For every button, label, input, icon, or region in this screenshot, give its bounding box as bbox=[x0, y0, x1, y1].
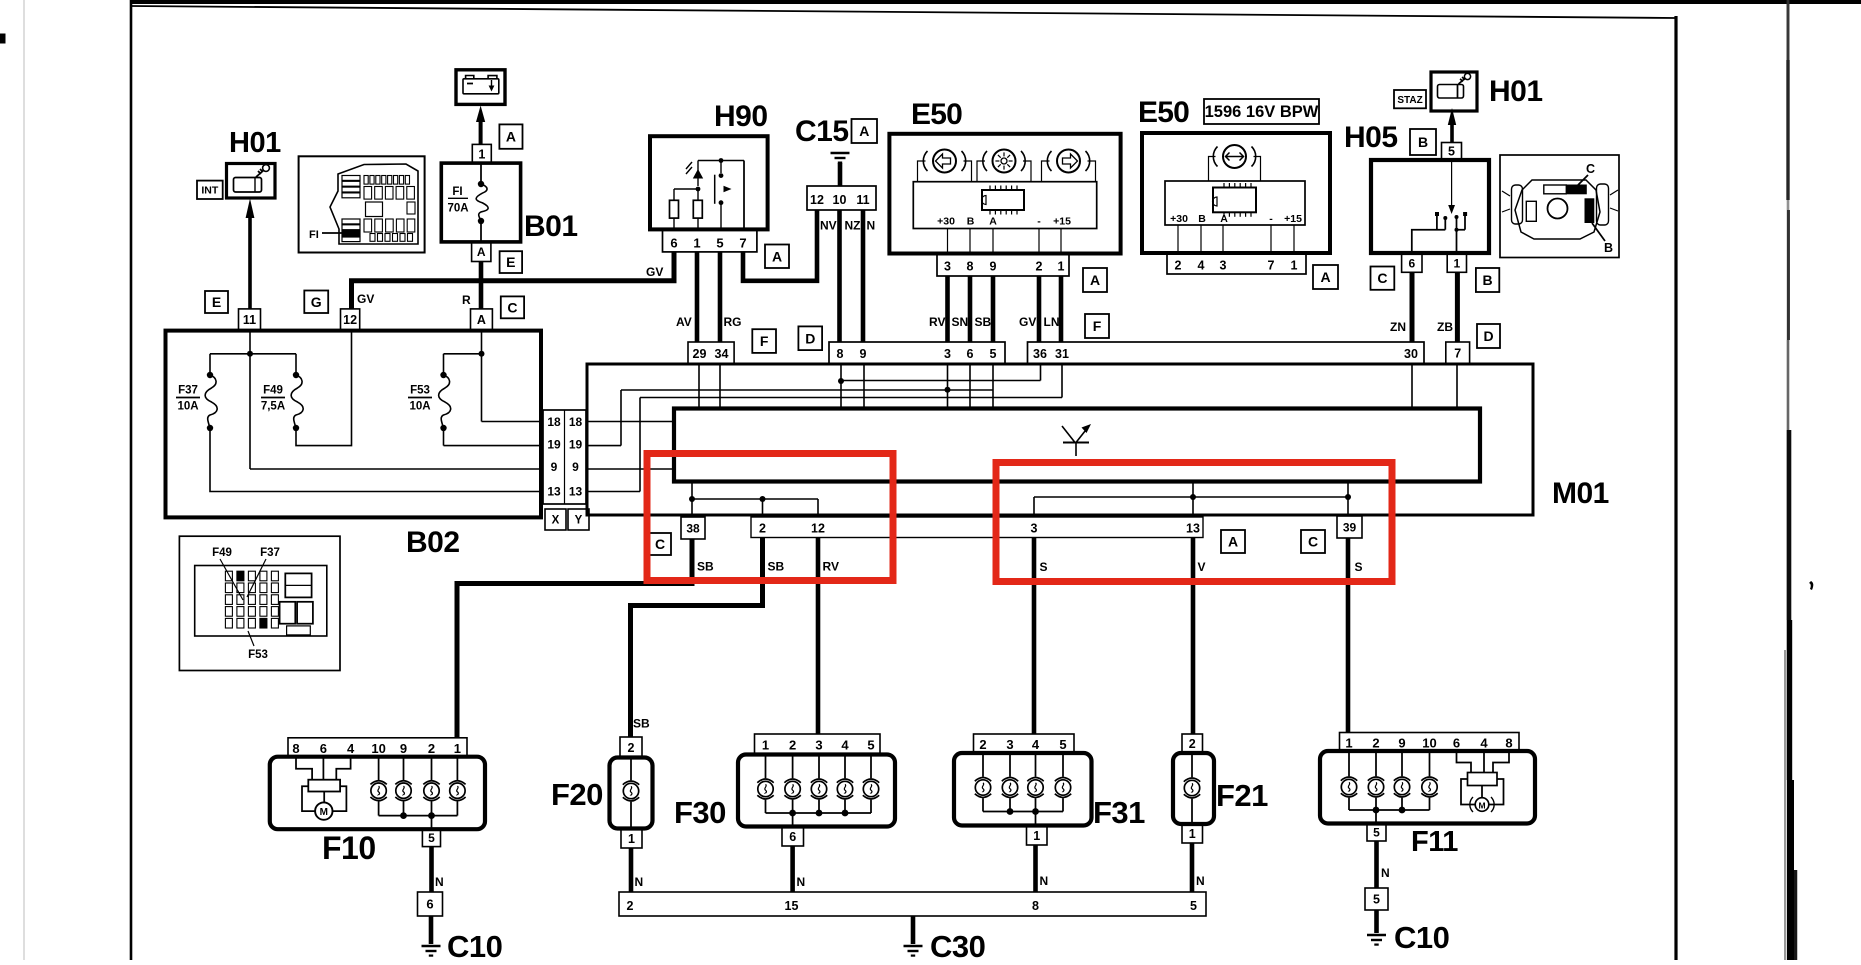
svg-text:LN: LN bbox=[1044, 315, 1060, 329]
svg-text:-: - bbox=[1037, 216, 1041, 228]
svg-text:F49: F49 bbox=[212, 547, 232, 559]
svg-text:3: 3 bbox=[1031, 522, 1038, 536]
svg-text:N: N bbox=[1381, 866, 1390, 880]
svg-text:A: A bbox=[1090, 272, 1100, 288]
svg-text:3: 3 bbox=[944, 260, 951, 274]
svg-text:38: 38 bbox=[686, 521, 700, 535]
svg-text:2: 2 bbox=[1372, 735, 1379, 750]
svg-text:A: A bbox=[506, 129, 516, 145]
svg-text:C10: C10 bbox=[447, 929, 502, 960]
svg-text:1: 1 bbox=[1033, 829, 1040, 843]
svg-text:6: 6 bbox=[320, 741, 327, 756]
svg-text:B: B bbox=[1483, 272, 1493, 288]
svg-text:5: 5 bbox=[990, 347, 997, 361]
svg-text:2: 2 bbox=[759, 522, 766, 536]
svg-text:C: C bbox=[507, 299, 517, 315]
svg-text:N: N bbox=[435, 875, 444, 889]
svg-text:H90: H90 bbox=[714, 100, 768, 133]
svg-text:1: 1 bbox=[628, 832, 635, 846]
svg-text:E50: E50 bbox=[911, 98, 962, 131]
svg-text:6: 6 bbox=[670, 236, 677, 251]
svg-text:N: N bbox=[1040, 874, 1049, 888]
svg-text:8: 8 bbox=[292, 741, 299, 756]
svg-text:9: 9 bbox=[400, 741, 407, 756]
svg-text:E: E bbox=[212, 294, 221, 310]
svg-text:9: 9 bbox=[1398, 735, 1405, 750]
svg-text:RV: RV bbox=[823, 560, 839, 574]
svg-text:+15: +15 bbox=[1284, 213, 1302, 225]
svg-text:5: 5 bbox=[1059, 737, 1066, 752]
svg-text:3: 3 bbox=[944, 347, 951, 361]
svg-text:C: C bbox=[655, 536, 665, 552]
svg-text:A: A bbox=[477, 313, 486, 327]
svg-text:AV: AV bbox=[676, 315, 692, 329]
svg-text:M: M bbox=[1478, 800, 1485, 810]
svg-text:1: 1 bbox=[1291, 259, 1298, 273]
svg-text:5: 5 bbox=[716, 236, 723, 251]
svg-text:9: 9 bbox=[860, 347, 867, 361]
svg-text:7: 7 bbox=[739, 236, 746, 251]
svg-text:10A: 10A bbox=[409, 401, 430, 413]
svg-text:N: N bbox=[635, 875, 644, 889]
svg-text:1: 1 bbox=[454, 741, 461, 756]
svg-text:B01: B01 bbox=[524, 210, 578, 243]
svg-text:1596 16V BPW: 1596 16V BPW bbox=[1205, 103, 1319, 121]
svg-text:N: N bbox=[797, 875, 806, 889]
svg-text:8: 8 bbox=[967, 260, 974, 274]
svg-text:C: C bbox=[1308, 534, 1318, 550]
svg-text:19: 19 bbox=[547, 438, 561, 452]
svg-text:5: 5 bbox=[1373, 893, 1380, 907]
svg-text:8: 8 bbox=[1032, 899, 1039, 913]
svg-text:13: 13 bbox=[569, 485, 583, 499]
svg-text:C10: C10 bbox=[1394, 920, 1449, 955]
svg-text:15: 15 bbox=[785, 899, 799, 913]
svg-text:A: A bbox=[772, 248, 782, 264]
svg-text:2: 2 bbox=[1189, 737, 1196, 751]
svg-text:4: 4 bbox=[841, 738, 849, 753]
svg-text:10: 10 bbox=[371, 741, 385, 756]
svg-text:2: 2 bbox=[428, 741, 435, 756]
svg-text:X: X bbox=[552, 515, 560, 527]
svg-text:GV: GV bbox=[1019, 315, 1036, 329]
svg-text:F30: F30 bbox=[674, 795, 726, 830]
svg-text:2: 2 bbox=[628, 741, 635, 755]
svg-text:12: 12 bbox=[811, 522, 825, 536]
svg-text:NV: NV bbox=[820, 219, 837, 233]
svg-text:V: V bbox=[1198, 560, 1206, 574]
svg-text:C: C bbox=[1586, 162, 1595, 176]
svg-text:10A: 10A bbox=[177, 401, 198, 413]
svg-text:3: 3 bbox=[815, 738, 822, 753]
svg-text:2: 2 bbox=[1175, 259, 1182, 273]
svg-text:H05: H05 bbox=[1344, 121, 1398, 154]
svg-text:RV: RV bbox=[929, 315, 945, 329]
svg-text:6: 6 bbox=[789, 830, 796, 844]
svg-text:6: 6 bbox=[1453, 735, 1460, 750]
svg-text:2: 2 bbox=[979, 737, 986, 752]
svg-text:B: B bbox=[1198, 213, 1206, 225]
svg-text:1: 1 bbox=[1345, 735, 1352, 750]
svg-text:13: 13 bbox=[1186, 522, 1200, 536]
svg-text:6: 6 bbox=[967, 347, 974, 361]
svg-text:9: 9 bbox=[990, 260, 997, 274]
svg-text:INT: INT bbox=[201, 185, 219, 197]
svg-text:F37: F37 bbox=[178, 385, 198, 397]
svg-text:N: N bbox=[1196, 874, 1205, 888]
svg-text:7: 7 bbox=[1454, 346, 1461, 360]
svg-text:2: 2 bbox=[1036, 260, 1043, 274]
svg-text:+30: +30 bbox=[1170, 213, 1188, 225]
svg-text:F53: F53 bbox=[410, 385, 430, 397]
svg-text:H01: H01 bbox=[1489, 75, 1543, 108]
svg-text:RG: RG bbox=[724, 315, 742, 329]
svg-text:1: 1 bbox=[1454, 256, 1461, 270]
svg-text:70A: 70A bbox=[447, 203, 468, 215]
svg-text:SN: SN bbox=[952, 315, 969, 329]
svg-text:F21: F21 bbox=[1216, 778, 1268, 813]
svg-text:8: 8 bbox=[837, 347, 844, 361]
svg-text:F10: F10 bbox=[322, 830, 376, 866]
svg-text:29: 29 bbox=[693, 347, 707, 361]
svg-text:B: B bbox=[1418, 134, 1428, 150]
svg-text:B: B bbox=[1604, 241, 1613, 255]
svg-text:R: R bbox=[462, 293, 471, 307]
svg-text:4: 4 bbox=[1198, 259, 1205, 273]
svg-text:FI: FI bbox=[452, 186, 462, 198]
svg-text:NZ: NZ bbox=[845, 219, 861, 233]
svg-text:1: 1 bbox=[1058, 260, 1065, 274]
svg-text:7: 7 bbox=[1268, 259, 1275, 273]
svg-text:A: A bbox=[859, 123, 869, 139]
svg-text:7,5A: 7,5A bbox=[261, 401, 285, 413]
svg-text:12: 12 bbox=[343, 313, 357, 327]
svg-text:N: N bbox=[867, 219, 876, 233]
svg-text:5: 5 bbox=[867, 738, 874, 753]
svg-text:1: 1 bbox=[693, 236, 700, 251]
svg-text:STAZ: STAZ bbox=[1397, 95, 1422, 106]
svg-text:C15: C15 bbox=[795, 115, 849, 148]
svg-text:8: 8 bbox=[1505, 735, 1512, 750]
svg-text:39: 39 bbox=[1343, 520, 1357, 534]
svg-text:3: 3 bbox=[1006, 737, 1013, 752]
svg-text:4: 4 bbox=[1480, 735, 1488, 750]
svg-text:B: B bbox=[967, 216, 975, 228]
svg-text:13: 13 bbox=[547, 485, 561, 499]
svg-text:F53: F53 bbox=[248, 649, 268, 661]
svg-text:A: A bbox=[1320, 269, 1330, 285]
svg-text:F: F bbox=[760, 333, 769, 349]
svg-text:2: 2 bbox=[789, 738, 796, 753]
svg-text:F20: F20 bbox=[551, 777, 603, 812]
svg-text:1: 1 bbox=[1189, 827, 1196, 841]
svg-text:30: 30 bbox=[1404, 347, 1418, 361]
svg-text:1: 1 bbox=[478, 147, 485, 161]
svg-text:GV: GV bbox=[357, 292, 374, 306]
svg-text:FI: FI bbox=[309, 229, 319, 241]
svg-text:3: 3 bbox=[1220, 259, 1227, 273]
svg-text:C: C bbox=[1377, 270, 1387, 286]
svg-text:A: A bbox=[1228, 534, 1238, 550]
svg-text:5: 5 bbox=[428, 831, 435, 845]
svg-text:2: 2 bbox=[627, 899, 634, 913]
svg-text:19: 19 bbox=[569, 438, 583, 452]
svg-text:5: 5 bbox=[1373, 826, 1380, 840]
svg-text:-: - bbox=[1269, 213, 1273, 225]
svg-text:Y: Y bbox=[575, 515, 583, 527]
svg-text:18: 18 bbox=[547, 415, 561, 429]
svg-text:11: 11 bbox=[856, 193, 869, 207]
svg-text:M: M bbox=[320, 807, 328, 818]
svg-text:S: S bbox=[1355, 560, 1363, 574]
svg-text:A: A bbox=[1220, 213, 1228, 225]
svg-text:+30: +30 bbox=[937, 216, 955, 228]
svg-text:H01: H01 bbox=[229, 127, 281, 159]
svg-text:5: 5 bbox=[1190, 899, 1197, 913]
svg-text:+15: +15 bbox=[1053, 216, 1071, 228]
svg-text:6: 6 bbox=[1408, 256, 1415, 270]
svg-text:ZN: ZN bbox=[1390, 320, 1406, 334]
svg-text:6: 6 bbox=[426, 897, 433, 912]
svg-text:SB: SB bbox=[768, 560, 785, 574]
svg-text:34: 34 bbox=[715, 347, 729, 361]
svg-text:F49: F49 bbox=[263, 385, 283, 397]
svg-text:E: E bbox=[506, 254, 515, 270]
svg-text:9: 9 bbox=[572, 460, 579, 474]
svg-text:F11: F11 bbox=[1411, 826, 1458, 858]
svg-text:D: D bbox=[1483, 328, 1493, 344]
svg-text:SB: SB bbox=[633, 717, 650, 731]
svg-text:10: 10 bbox=[833, 193, 847, 207]
svg-text:SB: SB bbox=[697, 560, 714, 574]
svg-text:4: 4 bbox=[347, 741, 355, 756]
svg-text:S: S bbox=[1040, 560, 1048, 574]
svg-text:E50: E50 bbox=[1138, 96, 1189, 129]
svg-text:18: 18 bbox=[569, 415, 583, 429]
svg-text:M01: M01 bbox=[1552, 477, 1609, 510]
svg-text:4: 4 bbox=[1032, 737, 1040, 752]
svg-text:G: G bbox=[311, 294, 322, 310]
svg-text:GV: GV bbox=[646, 265, 663, 279]
svg-text:10: 10 bbox=[1422, 735, 1436, 750]
svg-text:F31: F31 bbox=[1093, 795, 1145, 830]
svg-text:11: 11 bbox=[243, 313, 256, 327]
svg-text:5: 5 bbox=[1448, 144, 1455, 158]
svg-text:12: 12 bbox=[810, 193, 824, 207]
svg-text:C30: C30 bbox=[930, 929, 985, 960]
svg-text:A: A bbox=[477, 245, 486, 259]
svg-text:B02: B02 bbox=[406, 526, 460, 559]
svg-text:F: F bbox=[1093, 318, 1102, 334]
svg-text:9: 9 bbox=[551, 460, 558, 474]
svg-text:SB: SB bbox=[975, 315, 992, 329]
svg-text:36: 36 bbox=[1033, 347, 1047, 361]
svg-text:F37: F37 bbox=[260, 547, 280, 559]
svg-text:ZB: ZB bbox=[1437, 320, 1453, 334]
svg-text:D: D bbox=[805, 330, 815, 346]
svg-text:A: A bbox=[989, 216, 997, 228]
svg-text:31: 31 bbox=[1055, 347, 1069, 361]
svg-text:1: 1 bbox=[762, 738, 769, 753]
